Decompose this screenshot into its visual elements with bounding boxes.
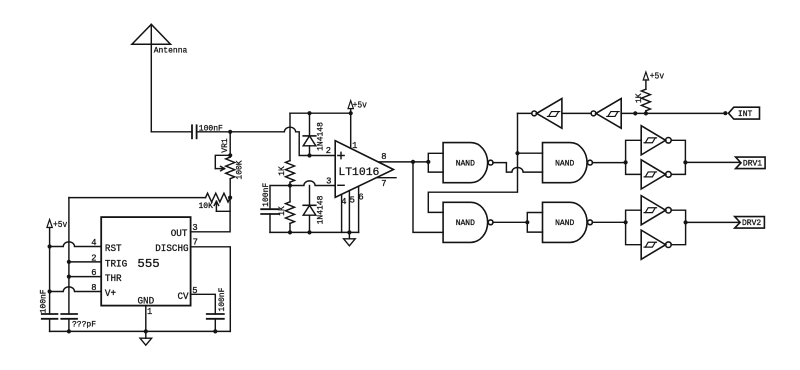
svg-text:???pF: ???pF bbox=[72, 321, 96, 330]
node driver pair 1 output bbox=[683, 160, 687, 164]
driver pair 1 output bracket bbox=[671, 140, 685, 174]
svg-text:100nF: 100nF bbox=[218, 287, 227, 311]
svg-text:3: 3 bbox=[192, 223, 197, 233]
wire V+ to +5v rail (hops trig rail) bbox=[50, 287, 102, 292]
node output branch bbox=[411, 160, 415, 164]
wire TRIG to rail bbox=[69, 261, 101, 263]
svg-text:4: 4 bbox=[341, 197, 346, 207]
I2 hysteresis glyph bbox=[607, 112, 619, 117]
B3 hysteresis glyph bbox=[644, 208, 656, 213]
gate G3 NAND upper-middle body bbox=[543, 143, 593, 183]
buffer B2 schmitt driver body bbox=[641, 160, 671, 189]
power +5v symbol comparator bbox=[348, 101, 353, 114]
potentiometer VR1 body 100K bbox=[226, 132, 235, 198]
terminal tag DRV1 bbox=[736, 157, 766, 169]
power +5v symbol pullup bbox=[643, 72, 648, 80]
gate G4 NAND lower-middle body bbox=[543, 202, 593, 242]
svg-text:TRIG: TRIG bbox=[105, 258, 127, 269]
node pin1 on +5v rail bbox=[349, 111, 353, 115]
svg-text:10K: 10K bbox=[199, 202, 214, 211]
op-amp U2 LT1016 comparator body bbox=[335, 141, 393, 198]
svg-text:NAND: NAND bbox=[456, 219, 475, 228]
svg-text:5: 5 bbox=[350, 196, 355, 206]
wire node517 to G3 upper input bbox=[518, 152, 543, 154]
wire G1 output jog to G3 input (hops feedback column) bbox=[493, 163, 543, 173]
node R3 on ground rail bbox=[288, 230, 292, 234]
svg-text:DRV2: DRV2 bbox=[742, 219, 761, 228]
ground rail comparator bbox=[270, 231, 359, 233]
svg-text:NAND: NAND bbox=[456, 160, 475, 169]
svg-text:Antenna: Antenna bbox=[154, 46, 188, 55]
svg-text:7: 7 bbox=[193, 237, 198, 247]
svg-text:THR: THR bbox=[105, 273, 122, 284]
wire to DRV1 tag bbox=[685, 161, 740, 163]
driver pair 1 input bracket bbox=[626, 140, 642, 174]
svg-text:+5v: +5v bbox=[650, 70, 665, 81]
svg-text:CV: CV bbox=[178, 291, 189, 302]
ground symbol 555 bbox=[140, 331, 152, 345]
U2 pin 6 stub bbox=[358, 186, 360, 232]
10K wiper arm bbox=[214, 198, 230, 212]
U2 pin 7 latch stub bbox=[376, 177, 396, 179]
wire node517 to inverter I1 bbox=[518, 112, 532, 114]
node GND pin on ground rail bbox=[144, 329, 148, 333]
wire C1 to VR1 node bbox=[197, 131, 231, 133]
node diode D1 anode / + input bbox=[307, 153, 311, 157]
node RST on +5v rail bbox=[48, 244, 52, 248]
node G1 input bracket bbox=[426, 160, 430, 164]
svg-text:+5v: +5v bbox=[53, 219, 68, 230]
wire G4 output to driver pair 2 bbox=[592, 221, 625, 223]
wire 10K to left rail bbox=[69, 197, 206, 199]
node TRIG on timing rail bbox=[67, 260, 71, 264]
svg-text:3: 3 bbox=[326, 176, 331, 186]
node divider junction bbox=[288, 183, 292, 187]
wire THR to rail bbox=[69, 276, 101, 278]
node 10K right end bbox=[228, 196, 232, 200]
terminal tag INT bbox=[729, 107, 760, 119]
gate G2 NAND lower-left body bbox=[443, 202, 493, 242]
capacitor C5 100nF filter bbox=[261, 209, 279, 214]
svg-text:1N4148: 1N4148 bbox=[317, 195, 326, 224]
node G4 input bracket bbox=[525, 220, 529, 224]
wire output branch down to lower NAND input bbox=[413, 162, 443, 233]
node gnd pin on ground rail bbox=[347, 230, 351, 234]
svg-text:1: 1 bbox=[147, 307, 152, 317]
power +5v symbol left bbox=[47, 220, 52, 315]
inverter I1 schmitt body bbox=[532, 99, 562, 129]
capacitor C1 100nF coupling bbox=[192, 125, 197, 138]
B2 hysteresis glyph bbox=[644, 172, 656, 177]
diode D2 1N4148 clamp to ground bbox=[303, 186, 316, 233]
wire I1 to I2 bbox=[562, 112, 591, 114]
gate G1 NAND upper-left body bbox=[443, 143, 493, 183]
driver pair 2 input bracket bbox=[626, 210, 642, 245]
U2 pin 4 stub bbox=[341, 194, 343, 232]
wire 10K column to 555 OUT bbox=[191, 211, 231, 232]
G1 input tie bracket bbox=[428, 153, 443, 172]
wire U2 output pin 8 bbox=[379, 161, 414, 163]
svg-text:6: 6 bbox=[358, 192, 363, 202]
svg-text:INT: INT bbox=[738, 110, 753, 119]
wire node to comparator + input (hops 1K column) bbox=[230, 127, 334, 155]
node INT tag bbox=[723, 111, 727, 115]
G4 input tie bracket bbox=[527, 213, 542, 233]
capacitor C3 timing ???pF bbox=[61, 314, 77, 319]
U2 plus input marker bbox=[338, 152, 344, 158]
antenna symbol bbox=[132, 24, 171, 132]
svg-text:LT1016: LT1016 bbox=[338, 167, 379, 179]
buffer B4 schmitt driver body bbox=[641, 230, 671, 259]
svg-text:2: 2 bbox=[326, 146, 331, 156]
wire G2 output to G4 input bbox=[493, 221, 527, 223]
node V+ on +5v rail bbox=[48, 289, 52, 293]
terminal tag DRV2 bbox=[735, 217, 765, 229]
wire output to gate G1 inputs bbox=[413, 161, 428, 163]
svg-text:+5v: +5v bbox=[353, 100, 368, 111]
svg-text:8: 8 bbox=[381, 152, 386, 162]
node VR1 wiper tie bbox=[228, 153, 232, 157]
svg-text:555: 555 bbox=[137, 257, 159, 271]
node C3 on ground rail bbox=[67, 329, 71, 333]
node driver pair 2 output bbox=[684, 220, 688, 224]
wire G3 output to driver pair 1 bbox=[592, 162, 625, 164]
wire RST to +5v rail (hops trig rail) bbox=[50, 242, 102, 247]
VR1 wiper arm bbox=[215, 155, 230, 171]
svg-text:1N4148: 1N4148 bbox=[317, 122, 326, 151]
resistor R2 1K upper bbox=[286, 113, 295, 185]
buffer B3 schmitt driver body bbox=[641, 196, 671, 225]
svg-text:DRV1: DRV1 bbox=[743, 159, 762, 168]
svg-text:1K: 1K bbox=[635, 93, 644, 103]
wire antenna to C1 bbox=[151, 131, 192, 133]
svg-text:1K: 1K bbox=[278, 166, 287, 176]
power +5v rail comparator bbox=[290, 112, 351, 114]
svg-text:OUT: OUT bbox=[171, 228, 188, 239]
diode D1 1N4148 clamp to +5v bbox=[303, 113, 316, 155]
U2 pin 1 power stub bbox=[350, 113, 352, 148]
svg-text:100nF: 100nF bbox=[39, 289, 48, 313]
ground symbol comparator bbox=[344, 232, 356, 245]
buffer B1 schmitt driver body bbox=[641, 126, 671, 155]
node at C1/VR1 junction bbox=[228, 130, 232, 134]
wire to DRV2 tag bbox=[686, 221, 740, 223]
wire DISCHG to ground rail bbox=[191, 247, 231, 332]
svg-text:NAND: NAND bbox=[555, 160, 574, 169]
node THR on timing rail bbox=[67, 275, 71, 279]
node D2 on ground rail bbox=[307, 230, 311, 234]
node pullup R4 bottom bbox=[644, 111, 648, 115]
capacitor C2 100nF decoupling bbox=[42, 314, 58, 319]
ground rail bottom left bbox=[50, 330, 231, 332]
resistor R4 1K pullup bbox=[641, 80, 650, 113]
U2 pin 5 stub bbox=[348, 191, 350, 233]
I1 hysteresis glyph bbox=[547, 112, 559, 117]
svg-text:100nF: 100nF bbox=[262, 183, 271, 207]
svg-text:DISCHG: DISCHG bbox=[155, 243, 189, 254]
wire divider to comparator - input (hops D2) bbox=[290, 181, 335, 186]
B1 hysteresis glyph bbox=[644, 138, 656, 143]
resistor R3 1K lower bbox=[286, 186, 295, 233]
node feedback to G3 upper input bbox=[515, 151, 519, 155]
resistor 10K trimmer bbox=[206, 193, 231, 202]
wire GND pin 1 bbox=[145, 306, 147, 332]
feedback column node517 bbox=[428, 113, 517, 212]
timing rail vertical bbox=[68, 198, 70, 314]
inverter I2 schmitt body bbox=[591, 99, 621, 129]
svg-text:7: 7 bbox=[381, 179, 386, 189]
B4 hysteresis glyph bbox=[644, 242, 656, 247]
node pullup left bbox=[633, 111, 637, 115]
svg-text:V+: V+ bbox=[105, 288, 116, 299]
node driver pair 2 input bbox=[624, 220, 628, 224]
svg-text:VR1: VR1 bbox=[221, 138, 230, 153]
node C4 on ground rail bbox=[213, 329, 217, 333]
svg-text:100K: 100K bbox=[236, 160, 245, 179]
wire I2 to INT tag bbox=[621, 112, 725, 114]
node D1 on +5v rail bbox=[307, 111, 311, 115]
IC U1 555 timer body bbox=[101, 217, 190, 306]
U2 minus input marker bbox=[338, 184, 344, 186]
svg-text:1: 1 bbox=[352, 141, 357, 151]
wire divider to C5 bbox=[270, 186, 290, 210]
svg-text:NAND: NAND bbox=[555, 219, 574, 228]
node driver pair 1 input bbox=[624, 160, 628, 164]
wire CV to C4 bbox=[191, 294, 216, 314]
driver pair 2 output bracket bbox=[671, 210, 685, 245]
capacitor C4 100nF on CV bbox=[207, 314, 224, 319]
svg-text:RST: RST bbox=[105, 243, 122, 254]
